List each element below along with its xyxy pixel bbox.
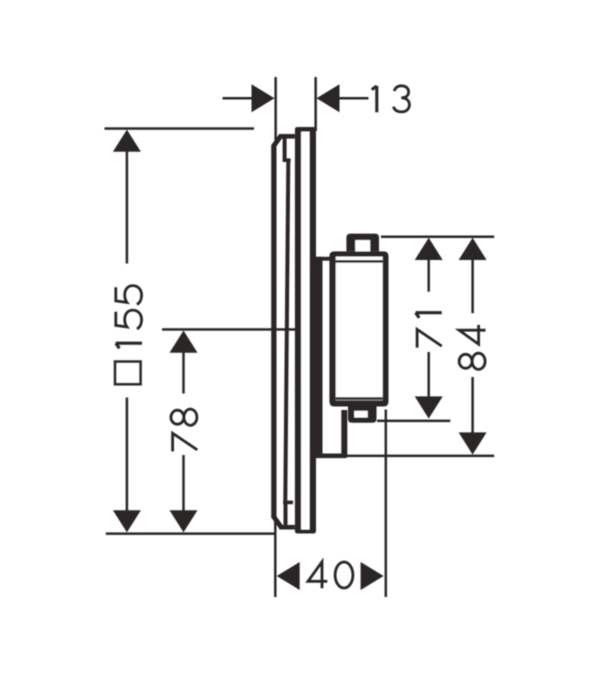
wire: dim line 78 lower segment [182, 455, 185, 512]
wire: dim line 78 upper segment [182, 352, 185, 394]
node: extension line 71/84 top [381, 236, 494, 239]
value label 40 [308, 562, 327, 588]
foot under body [348, 407, 377, 423]
arrow: 84 bottom arrowhead pointing down [459, 432, 487, 454]
valve body outer [329, 251, 388, 406]
node: extension line 78 top [162, 328, 316, 331]
wire: dim line 84 lower segment [471, 377, 474, 433]
bracket leg right wall [341, 410, 347, 458]
front panel inner top jog [283, 158, 291, 162]
plate: escutcheon side view outer [295, 127, 316, 534]
wire: dim line 13 left segment [223, 97, 254, 100]
arrow: 155 top arrowhead pointing up [113, 130, 141, 152]
node: extension line 84 bottom [347, 455, 495, 458]
front panel face line with chamfered ends [271, 134, 283, 529]
value label 78 [173, 433, 198, 451]
arrow: 40 left arrowhead pointing left [277, 562, 300, 590]
node: extension line 13 left [274, 77, 277, 143]
wire: dim line 155 lower segment [126, 398, 128, 512]
front panel inner bottom line [284, 504, 288, 525]
value label 84 [459, 353, 485, 369]
front panel top edge [279, 134, 295, 139]
plate inner white [301, 132, 310, 530]
arrow: 40 right arrowhead pointing right [361, 562, 384, 590]
value label 155 [116, 343, 142, 348]
node: extension line 13 right [314, 77, 317, 131]
knob inner white [355, 240, 370, 251]
wire: dim line 84 upper segment [471, 259, 474, 314]
bracket top edge [310, 257, 331, 261]
node: extension line 155 top [105, 127, 255, 130]
node: extension line 71 bottom [377, 420, 450, 423]
arrow: 71 top arrowhead pointing up [415, 238, 443, 260]
wire: dim line 155 upper segment [126, 151, 128, 264]
front panel inner top line [283, 138, 287, 158]
valve body top detail line [336, 260, 383, 263]
node: extension line 40 left [274, 519, 277, 598]
front panel bottom edge [279, 525, 295, 530]
front panel inner long edge line [283, 162, 290, 501]
arrow: 78 bottom arrowhead pointing down [170, 510, 198, 532]
front panel inner bottom jog [283, 501, 293, 505]
knob on top of body [346, 234, 379, 252]
node: extension line 40 right [385, 410, 388, 598]
foot inner white [354, 411, 368, 418]
arrow: 71 bottom arrowhead pointing down [415, 396, 443, 418]
valve body inner white [336, 257, 383, 401]
wire: dim line 71 lower segment [427, 352, 430, 397]
value label square symbol [115, 362, 141, 385]
bracket bottom foot [316, 454, 347, 459]
arrow: 13 left arrowhead pointing right [252, 84, 275, 112]
valve body bottom detail line [336, 397, 383, 400]
arrow: 155 bottom arrowhead pointing down [113, 510, 141, 532]
bracket left wall [316, 257, 323, 458]
arrow: 84 top arrowhead pointing up [459, 238, 487, 260]
arrow: 78 top arrowhead pointing up [170, 331, 198, 353]
arrow: 13 right arrowhead pointing left [317, 84, 340, 112]
value label 13 [372, 86, 377, 112]
node: extension line 155/78 bottom [106, 532, 275, 535]
value label 71 [417, 329, 442, 347]
wire: dim line 71 upper segment [427, 259, 430, 292]
wire: dim line 13 right segment [339, 97, 369, 100]
